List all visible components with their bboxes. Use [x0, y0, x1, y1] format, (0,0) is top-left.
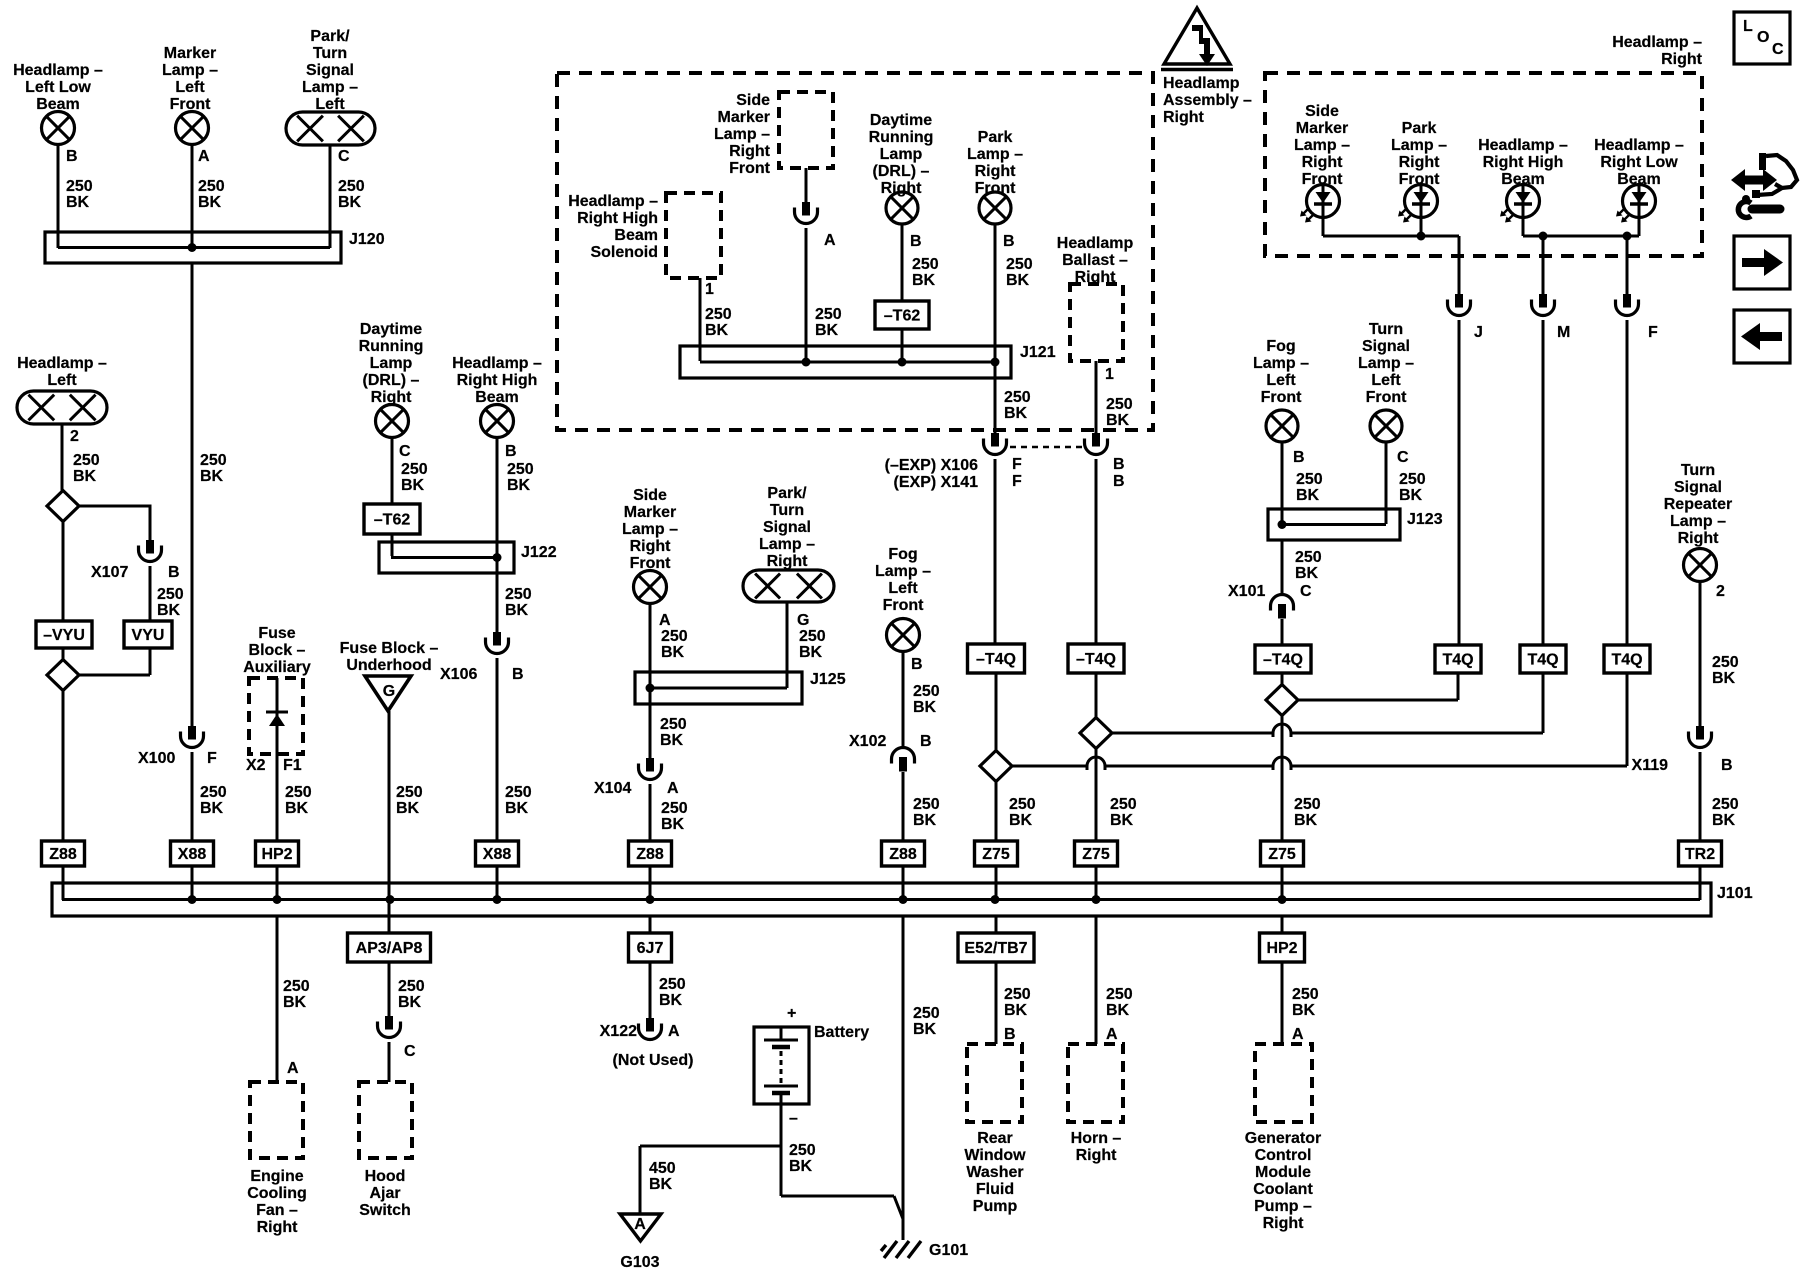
svg-text:C: C: [1397, 449, 1409, 466]
svg-text:Right: Right: [1661, 51, 1703, 68]
svg-text:Fuse Block –: Fuse Block –: [340, 640, 439, 657]
svg-text:Signal: Signal: [1362, 338, 1410, 355]
svg-text:Right High: Right High: [457, 372, 538, 389]
svg-text:B: B: [168, 564, 180, 581]
svg-text:Left: Left: [47, 372, 77, 389]
svg-text:X119: X119: [1632, 757, 1669, 774]
svg-text:Headlamp –: Headlamp –: [17, 355, 107, 372]
svg-text:A: A: [824, 232, 836, 249]
svg-text:C: C: [1772, 41, 1784, 58]
svg-text:J125: J125: [810, 671, 846, 688]
svg-text:Lamp –: Lamp –: [1253, 355, 1309, 372]
svg-text:Z75: Z75: [1082, 846, 1110, 863]
svg-text:BK: BK: [1110, 812, 1134, 829]
svg-text:250: 250: [789, 1142, 816, 1159]
svg-text:G: G: [383, 683, 395, 700]
svg-text:BK: BK: [1009, 812, 1033, 829]
svg-text:A: A: [1292, 1026, 1304, 1043]
svg-text:Z75: Z75: [982, 846, 1010, 863]
svg-text:Fuse: Fuse: [258, 625, 295, 642]
svg-text:Turn: Turn: [1369, 321, 1403, 338]
svg-text:250: 250: [659, 976, 686, 993]
svg-text:AP3/AP8: AP3/AP8: [356, 940, 423, 957]
svg-text:BK: BK: [1399, 487, 1423, 504]
svg-text:250: 250: [1006, 256, 1033, 273]
svg-text:Park/: Park/: [767, 485, 807, 502]
svg-text:Side: Side: [633, 487, 667, 504]
svg-text:A: A: [287, 1060, 299, 1077]
svg-text:F: F: [207, 750, 217, 767]
svg-text:Running: Running: [869, 129, 934, 146]
svg-text:Turn: Turn: [313, 45, 347, 62]
svg-text:B: B: [1004, 1026, 1016, 1043]
svg-text:BK: BK: [1004, 405, 1028, 422]
svg-text:250: 250: [505, 784, 532, 801]
svg-text:X102: X102: [849, 733, 886, 750]
svg-text:250: 250: [505, 586, 532, 603]
svg-text:(–EXP) X106: (–EXP) X106: [885, 457, 978, 474]
svg-text:Park: Park: [978, 129, 1013, 146]
svg-text:Right Low: Right Low: [1600, 154, 1678, 171]
svg-text:Side: Side: [736, 92, 770, 109]
svg-text:F: F: [1012, 456, 1022, 473]
svg-text:Generator: Generator: [1245, 1130, 1321, 1147]
svg-text:250: 250: [799, 628, 826, 645]
svg-text:250: 250: [73, 452, 100, 469]
svg-text:Lamp –: Lamp –: [759, 536, 815, 553]
svg-text:BK: BK: [1106, 1002, 1130, 1019]
svg-text:BK: BK: [912, 272, 936, 289]
svg-text:B: B: [1003, 233, 1015, 250]
svg-text:J120: J120: [349, 231, 385, 248]
svg-text:A: A: [634, 1216, 646, 1233]
svg-text:BK: BK: [799, 644, 823, 661]
svg-text:250: 250: [338, 178, 365, 195]
svg-text:Park/: Park/: [310, 28, 350, 45]
svg-text:BK: BK: [705, 322, 729, 339]
svg-text:–T4Q: –T4Q: [976, 651, 1016, 668]
svg-text:B: B: [911, 656, 923, 673]
svg-text:VYU: VYU: [132, 627, 165, 644]
svg-text:BK: BK: [913, 812, 937, 829]
svg-text:Signal: Signal: [306, 62, 354, 79]
svg-text:1: 1: [1105, 366, 1114, 383]
svg-text:250: 250: [200, 784, 227, 801]
svg-text:X101: X101: [1228, 583, 1265, 600]
svg-text:T4Q: T4Q: [1611, 652, 1642, 669]
svg-text:B: B: [1113, 456, 1125, 473]
svg-text:Lamp –: Lamp –: [1358, 355, 1414, 372]
svg-text:Left: Left: [175, 79, 205, 96]
svg-text:6J7: 6J7: [637, 940, 664, 957]
svg-text:Front: Front: [883, 597, 925, 614]
svg-text:B: B: [66, 148, 78, 165]
svg-text:Lamp –: Lamp –: [302, 79, 358, 96]
svg-text:B: B: [910, 233, 922, 250]
svg-text:Daytime: Daytime: [870, 112, 932, 129]
svg-text:Pump –: Pump –: [1254, 1198, 1312, 1215]
svg-text:J121: J121: [1020, 344, 1056, 361]
svg-text:X88: X88: [483, 846, 512, 863]
svg-text:T4Q: T4Q: [1527, 652, 1558, 669]
svg-text:Park: Park: [1402, 120, 1437, 137]
svg-text:BK: BK: [1292, 1002, 1316, 1019]
svg-text:F: F: [1012, 473, 1022, 490]
svg-text:Beam: Beam: [614, 227, 658, 244]
svg-text:Z88: Z88: [636, 846, 664, 863]
svg-text:Signal: Signal: [1674, 479, 1722, 496]
svg-text:E52/TB7: E52/TB7: [964, 940, 1027, 957]
svg-text:Hood: Hood: [365, 1168, 406, 1185]
svg-text:250: 250: [66, 178, 93, 195]
svg-text:BK: BK: [649, 1176, 673, 1193]
svg-text:250: 250: [1106, 396, 1133, 413]
svg-text:Front: Front: [1261, 389, 1303, 406]
svg-text:B: B: [920, 733, 932, 750]
svg-text:C: C: [399, 443, 411, 460]
svg-text:250: 250: [1712, 654, 1739, 671]
svg-text:–: –: [789, 1110, 798, 1127]
svg-text:BK: BK: [285, 800, 309, 817]
svg-text:250: 250: [1292, 986, 1319, 1003]
svg-text:250: 250: [705, 306, 732, 323]
svg-text:Turn: Turn: [770, 502, 804, 519]
svg-text:Z88: Z88: [49, 846, 77, 863]
svg-text:Z88: Z88: [889, 846, 917, 863]
svg-text:Block –: Block –: [249, 642, 306, 659]
svg-text:X100: X100: [138, 750, 175, 767]
svg-text:C: C: [1300, 583, 1312, 600]
svg-text:A: A: [667, 780, 679, 797]
svg-text:Right: Right: [257, 1219, 299, 1236]
svg-text:BK: BK: [1712, 812, 1736, 829]
svg-text:250: 250: [401, 461, 428, 478]
svg-text:J122: J122: [521, 544, 557, 561]
svg-text:BK: BK: [1294, 812, 1318, 829]
svg-text:O: O: [1757, 29, 1769, 46]
svg-text:Lamp –: Lamp –: [1670, 513, 1726, 530]
svg-text:Marker: Marker: [164, 45, 216, 62]
svg-text:F: F: [1648, 324, 1658, 341]
svg-text:G101: G101: [929, 1242, 968, 1259]
svg-text:Lamp: Lamp: [370, 355, 413, 372]
svg-text:250: 250: [283, 978, 310, 995]
svg-text:BK: BK: [505, 800, 529, 817]
svg-text:BK: BK: [283, 994, 307, 1011]
svg-text:J123: J123: [1407, 511, 1443, 528]
svg-text:–T62: –T62: [884, 308, 921, 325]
svg-text:BK: BK: [1296, 487, 1320, 504]
svg-text:250: 250: [1295, 549, 1322, 566]
svg-text:BK: BK: [660, 732, 684, 749]
svg-text:BK: BK: [66, 194, 90, 211]
svg-text:Turn: Turn: [1681, 462, 1715, 479]
svg-text:Daytime: Daytime: [360, 321, 422, 338]
svg-text:X88: X88: [178, 846, 207, 863]
svg-text:250: 250: [912, 256, 939, 273]
svg-text:Running: Running: [359, 338, 424, 355]
svg-text:Left: Left: [1371, 372, 1401, 389]
svg-text:BK: BK: [659, 992, 683, 1009]
svg-text:–T62: –T62: [374, 512, 411, 529]
svg-text:BK: BK: [1106, 412, 1130, 429]
svg-text:BK: BK: [913, 699, 937, 716]
svg-text:M: M: [1557, 324, 1570, 341]
svg-text:Marker: Marker: [718, 109, 770, 126]
svg-text:Headlamp: Headlamp: [1163, 75, 1240, 92]
svg-text:Pump: Pump: [973, 1198, 1018, 1215]
svg-text:BK: BK: [157, 602, 181, 619]
svg-text:Right: Right: [1302, 154, 1344, 171]
svg-text:G103: G103: [620, 1254, 659, 1271]
svg-text:A: A: [1106, 1026, 1118, 1043]
svg-text:C: C: [338, 148, 350, 165]
svg-text:BK: BK: [396, 800, 420, 817]
svg-text:Fog: Fog: [1266, 338, 1295, 355]
svg-text:250: 250: [396, 784, 423, 801]
svg-text:Front: Front: [729, 160, 771, 177]
svg-text:Lamp –: Lamp –: [714, 126, 770, 143]
svg-text:Side: Side: [1305, 103, 1339, 120]
svg-text:Module: Module: [1255, 1164, 1311, 1181]
svg-text:TR2: TR2: [1685, 846, 1715, 863]
svg-text:Fan –: Fan –: [256, 1202, 298, 1219]
svg-text:Right: Right: [1399, 154, 1441, 171]
svg-text:(EXP) X141: (EXP) X141: [894, 474, 979, 491]
svg-text:(Not Used): (Not Used): [613, 1052, 694, 1069]
svg-text:X107: X107: [91, 564, 128, 581]
svg-text:X106: X106: [440, 666, 477, 683]
svg-text:Front: Front: [975, 180, 1017, 197]
svg-text:Left: Left: [888, 580, 918, 597]
svg-text:J: J: [1474, 324, 1483, 341]
svg-text:BK: BK: [401, 477, 425, 494]
svg-text:250: 250: [285, 784, 312, 801]
svg-text:Marker: Marker: [1296, 120, 1348, 137]
svg-text:BK: BK: [661, 644, 685, 661]
svg-text:250: 250: [198, 178, 225, 195]
svg-text:BK: BK: [398, 994, 422, 1011]
svg-text:Headlamp –: Headlamp –: [1594, 137, 1684, 154]
svg-text:BK: BK: [913, 1021, 937, 1038]
svg-text:Front: Front: [1366, 389, 1408, 406]
svg-text:Right: Right: [975, 163, 1017, 180]
svg-text:Battery: Battery: [814, 1024, 869, 1041]
svg-text:2: 2: [70, 428, 79, 445]
svg-text:F1: F1: [283, 757, 302, 774]
svg-text:BK: BK: [661, 816, 685, 833]
svg-text:BK: BK: [505, 602, 529, 619]
svg-text:Right: Right: [881, 180, 923, 197]
svg-text:Headlamp –: Headlamp –: [1478, 137, 1568, 154]
svg-text:–VYU: –VYU: [43, 627, 85, 644]
svg-text:X104: X104: [594, 780, 631, 797]
svg-text:Washer: Washer: [966, 1164, 1023, 1181]
svg-text:Coolant: Coolant: [1253, 1181, 1313, 1198]
svg-text:Right: Right: [1263, 1215, 1305, 1232]
svg-text:250: 250: [1399, 471, 1426, 488]
svg-text:BK: BK: [1295, 565, 1319, 582]
svg-text:250: 250: [661, 628, 688, 645]
svg-text:250: 250: [913, 683, 940, 700]
svg-text:–T4Q: –T4Q: [1263, 652, 1303, 669]
svg-text:Lamp –: Lamp –: [875, 563, 931, 580]
svg-text:Cooling: Cooling: [247, 1185, 307, 1202]
svg-text:250: 250: [1009, 796, 1036, 813]
svg-text:Rear: Rear: [977, 1130, 1013, 1147]
svg-text:B: B: [505, 443, 517, 460]
svg-text:Lamp –: Lamp –: [622, 521, 678, 538]
svg-text:250: 250: [507, 461, 534, 478]
svg-text:Lamp: Lamp: [880, 146, 923, 163]
svg-text:250: 250: [661, 800, 688, 817]
svg-text:250: 250: [157, 586, 184, 603]
svg-text:Lamp –: Lamp –: [1294, 137, 1350, 154]
svg-text:Window: Window: [964, 1147, 1026, 1164]
svg-text:BK: BK: [1712, 670, 1736, 687]
svg-text:X122: X122: [600, 1023, 637, 1040]
svg-text:Right: Right: [1163, 109, 1205, 126]
svg-text:Right High: Right High: [1483, 154, 1564, 171]
svg-text:L: L: [1743, 18, 1753, 35]
svg-text:Headlamp –: Headlamp –: [452, 355, 542, 372]
svg-text:250: 250: [1106, 986, 1133, 1003]
svg-text:Fluid: Fluid: [976, 1181, 1014, 1198]
svg-text:250: 250: [815, 306, 842, 323]
svg-text:C: C: [404, 1043, 416, 1060]
svg-text:HP2: HP2: [1266, 940, 1297, 957]
svg-text:250: 250: [200, 452, 227, 469]
svg-text:B: B: [512, 666, 524, 683]
svg-text:Left: Left: [1266, 372, 1296, 389]
svg-text:Ajar: Ajar: [369, 1185, 400, 1202]
svg-text:BK: BK: [338, 194, 362, 211]
svg-text:T4Q: T4Q: [1442, 652, 1473, 669]
svg-text:A: A: [198, 148, 210, 165]
svg-text:Right: Right: [630, 538, 672, 555]
svg-text:250: 250: [913, 1005, 940, 1022]
svg-text:(DRL) –: (DRL) –: [363, 372, 420, 389]
svg-text:Ballast –: Ballast –: [1062, 252, 1128, 269]
svg-text:HP2: HP2: [261, 846, 292, 863]
svg-text:250: 250: [913, 796, 940, 813]
svg-text:Left Low: Left Low: [25, 79, 91, 96]
svg-text:Auxiliary: Auxiliary: [243, 659, 311, 676]
svg-text:Right High: Right High: [577, 210, 658, 227]
svg-text:250: 250: [1294, 796, 1321, 813]
svg-text:Lamp –: Lamp –: [1391, 137, 1447, 154]
svg-text:Right: Right: [767, 553, 809, 570]
svg-text:+: +: [787, 1005, 796, 1022]
svg-text:Headlamp –: Headlamp –: [568, 193, 658, 210]
svg-text:Headlamp: Headlamp: [1057, 235, 1134, 252]
svg-text:250: 250: [660, 716, 687, 733]
svg-text:250: 250: [1296, 471, 1323, 488]
svg-text:BK: BK: [198, 194, 222, 211]
svg-text:J101: J101: [1717, 885, 1753, 902]
svg-text:Switch: Switch: [359, 1202, 411, 1219]
svg-text:Right: Right: [729, 143, 771, 160]
svg-text:Headlamp –: Headlamp –: [1612, 34, 1702, 51]
svg-text:Horn –: Horn –: [1071, 1130, 1122, 1147]
svg-text:Fog: Fog: [888, 546, 917, 563]
svg-text:–T4Q: –T4Q: [1076, 651, 1116, 668]
svg-text:Repeater: Repeater: [1664, 496, 1732, 513]
svg-text:B: B: [1113, 473, 1125, 490]
svg-text:(DRL) –: (DRL) –: [873, 163, 930, 180]
svg-text:250: 250: [1712, 796, 1739, 813]
svg-text:Signal: Signal: [763, 519, 811, 536]
svg-text:250: 250: [398, 978, 425, 995]
svg-text:BK: BK: [789, 1158, 813, 1175]
svg-text:2: 2: [1716, 583, 1725, 600]
svg-text:Lamp –: Lamp –: [967, 146, 1023, 163]
svg-text:BK: BK: [200, 468, 224, 485]
svg-text:B: B: [1721, 757, 1733, 774]
svg-text:Z75: Z75: [1268, 846, 1296, 863]
svg-text:A: A: [668, 1023, 680, 1040]
svg-text:BK: BK: [200, 800, 224, 817]
svg-text:BK: BK: [815, 322, 839, 339]
svg-text:Lamp –: Lamp –: [162, 62, 218, 79]
svg-text:1: 1: [705, 281, 714, 298]
svg-text:250: 250: [1110, 796, 1137, 813]
svg-text:Marker: Marker: [624, 504, 676, 521]
svg-text:BK: BK: [507, 477, 531, 494]
svg-text:250: 250: [1004, 389, 1031, 406]
svg-text:Engine: Engine: [250, 1168, 303, 1185]
svg-text:Right: Right: [1076, 1147, 1118, 1164]
svg-text:X2: X2: [246, 757, 266, 774]
svg-text:250: 250: [1004, 986, 1031, 1003]
svg-text:Headlamp –: Headlamp –: [13, 62, 103, 79]
svg-text:Assembly –: Assembly –: [1163, 92, 1252, 109]
svg-text:A: A: [659, 612, 671, 629]
svg-text:Control: Control: [1255, 1147, 1312, 1164]
svg-text:Right: Right: [1678, 530, 1720, 547]
svg-text:BK: BK: [1004, 1002, 1028, 1019]
svg-text:G: G: [797, 612, 809, 629]
svg-text:Underhood: Underhood: [346, 657, 431, 674]
svg-text:450: 450: [649, 1160, 676, 1177]
svg-text:BK: BK: [73, 468, 97, 485]
svg-text:BK: BK: [1006, 272, 1030, 289]
svg-text:B: B: [1293, 449, 1305, 466]
svg-text:Solenoid: Solenoid: [590, 244, 658, 261]
